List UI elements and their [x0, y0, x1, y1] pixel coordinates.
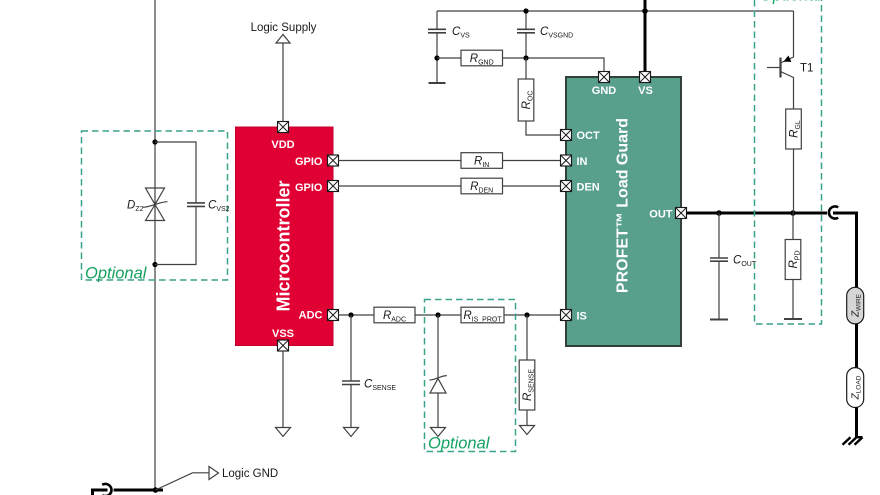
svg-text:GND: GND [592, 85, 617, 97]
svg-text:Microcontroller: Microcontroller [274, 180, 294, 311]
svg-text:IN: IN [577, 156, 588, 168]
transistor T1 (PNP) [767, 56, 813, 110]
wire: main left vertical net [154, 0, 156, 490]
ground (Csense) [344, 428, 359, 437]
wire: Rgl to OUT [793, 149, 795, 213]
capacitor COUT [710, 255, 757, 269]
pin GPIO2 [328, 181, 339, 192]
pin VDD [278, 122, 289, 133]
svg-text:Optional: Optional [85, 265, 148, 283]
node: junction top of Dz2 branch [152, 139, 157, 144]
optional box (middle, zener) [425, 300, 516, 453]
wire: ADC to IS net [338, 314, 561, 316]
wire: Logic GND pointer [156, 473, 209, 490]
wire: zener drop [437, 315, 439, 428]
wire: GPIO2 to DEN [338, 185, 561, 187]
resistor RIS_PROT [461, 307, 504, 323]
node: junction Rsense [524, 312, 529, 317]
pin GND [599, 72, 610, 83]
wire: VSS to ground [282, 351, 284, 428]
svg-text:Logic Supply: Logic Supply [251, 22, 317, 34]
resistor RIN [461, 153, 503, 169]
pin GPIO1 [328, 155, 339, 166]
svg-text:GPIO: GPIO [295, 182, 323, 194]
wire: Rpd drop [792, 213, 794, 319]
connector (bottom left) [102, 484, 111, 495]
svg-text:OUT: OUT [649, 209, 673, 221]
wire: between Zwire and Zload (thick) [855, 324, 858, 368]
resistor RGND [461, 50, 503, 66]
ground bar (Rpd) [784, 318, 802, 320]
zener diode DZ2 (bidirectional TVS) [127, 188, 167, 221]
pin IS [561, 310, 572, 321]
wire: Roc branch [526, 58, 561, 135]
pin VS [640, 72, 651, 83]
node: junction Cvsgnd bottom [523, 55, 528, 60]
node: junction zener [435, 312, 440, 317]
wire: Rgnd row [437, 58, 604, 72]
svg-text:VDD: VDD [271, 139, 294, 151]
resistor RADC [374, 307, 415, 323]
wire: Cout drop [718, 213, 720, 320]
wire: Cvs2 branch [155, 142, 196, 265]
pin IN [561, 155, 572, 166]
node: junction Rpd/Rgl [790, 210, 796, 216]
svg-text:VSS: VSS [272, 328, 294, 340]
ground bar (Cvs) [429, 82, 446, 84]
connector (OUT) [829, 206, 838, 218]
optional box (right, T1/Rgl/Rpd) [755, 0, 823, 324]
pin DEN [561, 181, 572, 192]
node: junction VS rail [642, 8, 648, 14]
zener diode (IS clamp) [430, 376, 447, 393]
wire: OUT (thick) [686, 212, 827, 215]
svg-text:PROFET™ Load Guard: PROFET™ Load Guard [614, 118, 631, 293]
node: junction bottom of Dz2 branch [152, 262, 157, 267]
svg-text:Optional: Optional [760, 0, 823, 5]
resistor RGL [786, 109, 802, 149]
node: junction Cvsgnd top [523, 8, 528, 13]
pin OCT [561, 130, 572, 141]
resistor RDEN [461, 178, 503, 194]
wire: OUT to load (thick) [833, 213, 857, 287]
pin VSS [278, 340, 289, 351]
node: junction logic gnd [153, 487, 159, 493]
capacitor CVS2 [187, 200, 230, 214]
impedance ZLOAD [847, 368, 864, 408]
svg-text:OCT: OCT [577, 130, 601, 142]
optional box (left, Dz2/Cvs2) [82, 131, 228, 283]
wire: Csense drop [350, 315, 352, 428]
microcontroller U1 [236, 127, 334, 346]
svg-text:Optional: Optional [428, 435, 491, 453]
wire: Zload to chassis (thick) [855, 408, 858, 438]
svg-text:IS: IS [577, 311, 587, 323]
node: junction Csense [348, 312, 353, 317]
chassis ground (load) [843, 437, 863, 445]
Logic Supply terminal [251, 22, 317, 43]
wire: Cvs branch [436, 11, 438, 83]
svg-text:DEN: DEN [577, 182, 600, 194]
node: junction Cvs/Rgnd [434, 55, 439, 60]
capacitor CVS [428, 26, 470, 40]
ground (VSS) [276, 428, 291, 437]
resistor RSENSE [519, 360, 535, 410]
impedance ZWIRE [847, 287, 864, 324]
svg-text:ADC: ADC [299, 310, 323, 322]
resistor RPD [785, 240, 801, 280]
wire: Rsense drop [526, 315, 528, 426]
svg-text:T1: T1 [800, 63, 813, 75]
capacitor CVSGND [517, 26, 573, 40]
pin OUT [676, 208, 687, 219]
wire: GPIO1 to IN [338, 160, 561, 162]
PROFET Load Guard U2 [566, 77, 681, 346]
wire: bottom supply (thick) [93, 490, 164, 495]
svg-text:Logic GND: Logic GND [222, 468, 278, 480]
wire: Cvsgnd branch [525, 11, 527, 58]
wire: top VS rail (thin) [437, 10, 794, 12]
wire: T1 emitter from VS rail [782, 11, 794, 63]
capacitor CSENSE [342, 379, 396, 393]
ground (zener) [431, 428, 446, 437]
Logic GND flag [209, 467, 278, 481]
wire: VS supply (thick) [644, 0, 647, 72]
ground bar (Cout) [710, 319, 728, 321]
pin ADC [328, 310, 339, 321]
resistor ROC [518, 79, 534, 121]
ground (Rsense) [520, 426, 535, 435]
node: junction Cout [716, 210, 722, 216]
wire: Logic Supply to VDD [282, 43, 284, 122]
svg-text:VS: VS [638, 85, 653, 97]
svg-text:GPIO: GPIO [295, 156, 323, 168]
